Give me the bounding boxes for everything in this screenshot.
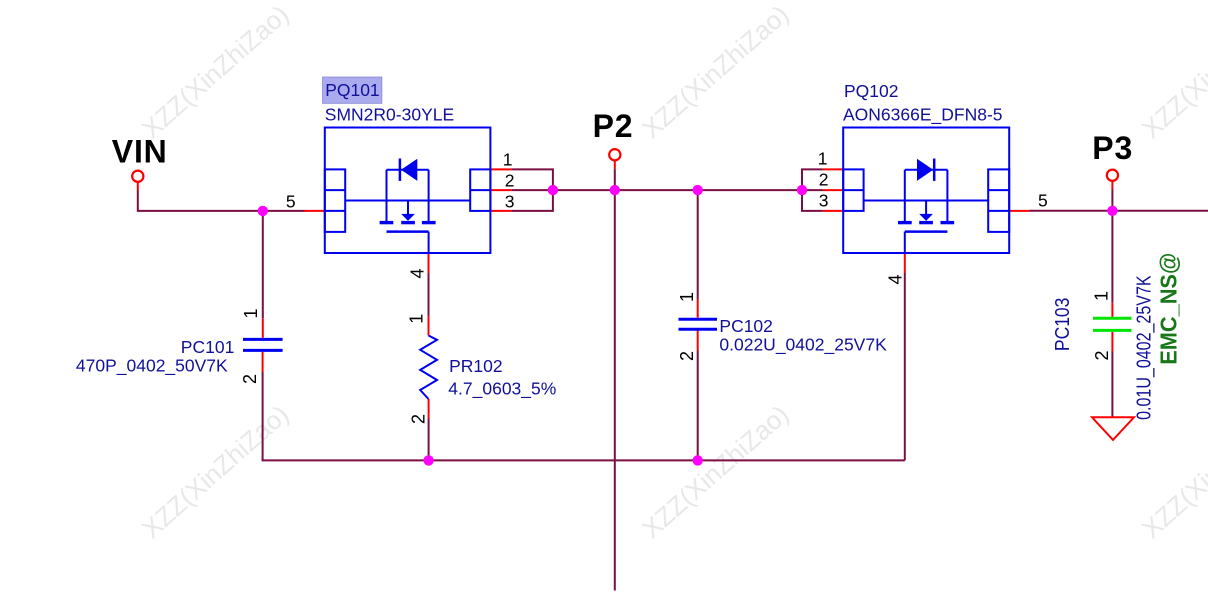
pin 2 PC101 — [262, 352, 264, 372]
svg-text:2: 2 — [505, 171, 515, 191]
svg-text:2: 2 — [1092, 350, 1112, 360]
watermark row1 col2 — [636, 0, 794, 144]
junction dot PC102 top — [693, 185, 703, 195]
pin 5 PQ101 — [305, 210, 325, 212]
port circle P3 — [1107, 170, 1118, 181]
svg-text:1: 1 — [407, 314, 427, 324]
svg-text:3: 3 — [819, 190, 829, 210]
wire PC103 to ground — [1111, 352, 1113, 418]
transistor PQ102 body — [843, 128, 1009, 254]
capacitor PC103 — [1093, 318, 1132, 330]
svg-text:4.7_0603_5%: 4.7_0603_5% — [448, 379, 556, 400]
watermark row2 col1 — [136, 399, 294, 544]
svg-text:1: 1 — [241, 308, 261, 318]
svg-text:5: 5 — [286, 192, 296, 212]
pin 1 PC103 — [1111, 302, 1113, 317]
wire P2 bus — [553, 189, 802, 191]
svg-text:1: 1 — [503, 149, 513, 169]
svg-text:PQ101: PQ101 — [325, 80, 379, 100]
wire PQ101 gate to PR102 — [428, 274, 430, 316]
junction dot PR102 bottom — [423, 455, 433, 465]
pin 3 PQ102 — [823, 210, 843, 212]
watermark row2 col2 — [636, 399, 794, 544]
pin 4 PQ102 — [904, 253, 906, 273]
pin stub P2 port — [614, 160, 616, 169]
wire PC102 bottom drop — [697, 351, 699, 461]
svg-text:VIN: VIN — [112, 133, 168, 169]
svg-text:3: 3 — [505, 192, 515, 212]
wire PR102 bottom — [428, 419, 430, 461]
capacitor PC102 — [679, 319, 718, 329]
wire PQ102 pin2 link — [802, 189, 823, 191]
pin 5 PQ102 — [1009, 210, 1029, 212]
svg-text:2: 2 — [819, 169, 829, 189]
svg-text:2: 2 — [677, 351, 697, 361]
pin 2 PR102 — [428, 399, 430, 419]
pin 1 PC101 — [262, 318, 264, 338]
svg-text:5: 5 — [1038, 190, 1048, 210]
pin 2 PQ102 — [823, 189, 843, 191]
wire PC101 bottom drop — [262, 372, 264, 460]
wire PQ101 pin2 link — [511, 189, 553, 191]
PQ101 designator highlight — [323, 77, 382, 103]
pin stub P3 port — [1111, 181, 1113, 190]
svg-text:PQ102: PQ102 — [844, 81, 898, 101]
junction dot PQ102 bracket — [797, 185, 807, 195]
svg-text:P3: P3 — [1092, 130, 1133, 166]
port circle P2 — [609, 149, 620, 160]
wire PQ102 gate down — [904, 273, 906, 460]
svg-text:2: 2 — [240, 374, 260, 384]
wire P3 bus — [1030, 210, 1208, 212]
watermark row2 col3 — [1136, 399, 1208, 544]
pin 1 PQ102 — [823, 168, 843, 170]
wire P2 vertical — [614, 169, 616, 590]
pin 2 PC102 — [697, 331, 699, 351]
svg-text:PC103: PC103 — [1052, 298, 1074, 352]
watermark row1 col3 — [1136, 0, 1208, 144]
pin 1 PQ101 — [490, 168, 511, 170]
junction dot PC102 bottom — [693, 455, 703, 465]
pin 4 PQ101 — [428, 253, 430, 274]
pin 3 PQ101 — [490, 210, 511, 212]
svg-text:0.01U_0402_25V7K: 0.01U_0402_25V7K — [1134, 275, 1156, 420]
wire VIN to PQ101 pin5 — [138, 191, 305, 211]
svg-text:1: 1 — [1091, 291, 1111, 301]
svg-text:PC102: PC102 — [719, 316, 773, 336]
wire bottom bus — [262, 459, 905, 461]
wire PQ102 input bracket — [802, 169, 823, 211]
wire PC101 top drop — [262, 211, 264, 318]
svg-text:0.022U_0402_25V7K: 0.022U_0402_25V7K — [719, 334, 887, 355]
resistor PR102 — [420, 336, 437, 400]
svg-text:SMN2R0-30YLE: SMN2R0-30YLE — [325, 104, 454, 124]
svg-text:4: 4 — [886, 274, 906, 284]
svg-text:1: 1 — [677, 292, 697, 302]
port circle VIN — [132, 171, 143, 182]
wire P3 vertical — [1111, 190, 1113, 211]
svg-text:2: 2 — [408, 414, 428, 424]
wire PC103 top drop — [1111, 211, 1113, 303]
junction dot PQ101 bracket — [548, 185, 558, 195]
pin 1 PC102 — [697, 299, 699, 318]
svg-text:1: 1 — [818, 149, 828, 169]
wire PQ101 output bracket — [511, 169, 553, 211]
watermark row1 col1 — [136, 0, 294, 144]
svg-text:PC101: PC101 — [181, 337, 235, 357]
junction dot P3 — [1107, 206, 1117, 216]
ground EMC_NS — [1092, 417, 1134, 440]
pin stub VIN port — [137, 182, 139, 191]
wire PC102 top drop — [697, 190, 699, 299]
svg-text:EMC_NS@: EMC_NS@ — [1156, 253, 1182, 365]
pin 2 PC103 — [1111, 332, 1113, 352]
svg-text:PR102: PR102 — [449, 356, 503, 376]
junction dot VIN/PC101 — [258, 206, 268, 216]
transistor PQ101 body — [325, 128, 491, 254]
svg-text:AON6366E_DFN8-5: AON6366E_DFN8-5 — [843, 105, 1003, 126]
junction dot P2 — [610, 185, 620, 195]
svg-text:P2: P2 — [593, 108, 634, 144]
pin 1 PR102 — [428, 316, 430, 336]
svg-text:470P_0402_50V7K: 470P_0402_50V7K — [76, 356, 228, 377]
capacitor PC101 — [243, 339, 283, 350]
svg-text:4: 4 — [408, 268, 428, 278]
pin 2 PQ101 — [490, 189, 511, 191]
